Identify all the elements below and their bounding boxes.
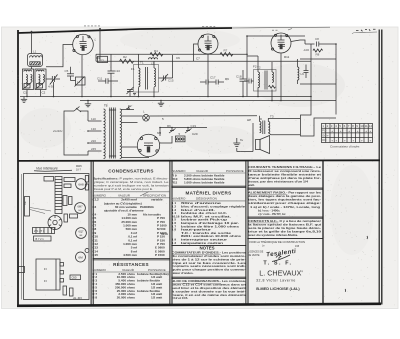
wire to dial lamp xyxy=(122,115,143,117)
tube socket V1c xyxy=(76,179,87,190)
svg-text:RÉSISTANCES: RÉSISTANCES xyxy=(113,260,149,267)
svg-text:tateur d'ondes.: tateur d'ondes. xyxy=(172,271,194,275)
wire right verticals xyxy=(310,44,312,97)
svg-text:C7: C7 xyxy=(196,57,200,61)
wire L1 to tuning coils xyxy=(31,67,33,70)
small part C xyxy=(64,184,71,188)
svg-text:FI: FI xyxy=(44,267,47,271)
connector TU box xyxy=(98,56,108,62)
svg-text:C1,2: C1,2 xyxy=(92,198,99,202)
svg-text:10: 10 xyxy=(360,124,364,128)
svg-text:T2: T2 xyxy=(128,104,132,108)
svg-text:FI: FI xyxy=(44,279,47,283)
handwritten tag top right xyxy=(352,29,377,33)
IF transformer T1 xyxy=(134,61,159,92)
wire V3 cathode down xyxy=(280,53,282,100)
band switch contact table xyxy=(322,124,373,143)
svg-text:C18: C18 xyxy=(236,75,242,79)
svg-text:T2: T2 xyxy=(257,66,261,70)
wire lamp to output stage xyxy=(149,115,257,117)
svg-text:L1: L1 xyxy=(33,50,37,54)
svg-text:R2: R2 xyxy=(123,55,127,59)
filter resistor R13 xyxy=(167,124,176,133)
svg-text:avec du système inférax-Mut: avec du système inférax-Mutra. xyxy=(248,233,298,237)
small part A xyxy=(44,177,54,182)
secondary taps to rectifier xyxy=(122,122,138,124)
extra tiny labels xyxy=(23,55,290,136)
svg-text:NUMERO: NUMERO xyxy=(172,169,186,173)
wire V2 grid left xyxy=(194,44,199,61)
svg-text:VALEUR: VALEUR xyxy=(196,169,209,173)
svg-text:C2: C2 xyxy=(42,91,46,95)
junction dots xyxy=(81,96,83,98)
svg-text:10-7: 10-7 xyxy=(76,169,81,172)
svg-text:6A8: 6A8 xyxy=(78,183,84,187)
screen wire W3 xyxy=(96,60,311,62)
svg-text:lampadaire cadran: lampadaire cadran xyxy=(181,241,223,245)
plate supply wire W2 xyxy=(96,53,247,55)
resistor R4 xyxy=(150,49,163,56)
mid small parts xyxy=(63,196,67,206)
dial drum xyxy=(48,216,62,230)
gang condenser block xyxy=(33,228,55,234)
svg-text:CBD: CBD xyxy=(72,277,77,280)
capacitor C17a xyxy=(200,80,216,85)
svg-text:C10: C10 xyxy=(115,69,121,73)
left electrolytic xyxy=(24,197,30,217)
tube V3 detector xyxy=(271,33,291,53)
small vertical caps xyxy=(63,286,67,295)
svg-text:R11: R11 xyxy=(172,180,178,184)
svg-text:C8: C8 xyxy=(315,37,319,41)
wire antenna lead down to L1 xyxy=(31,32,33,54)
tube V2 IF amp xyxy=(198,34,218,54)
wire speaker field xyxy=(240,151,253,153)
svg-text:LICENCES DE: LICENCES DE xyxy=(248,252,264,254)
svg-text:110: 110 xyxy=(91,117,96,121)
svg-text:DE VENTE: DE VENTE xyxy=(248,255,260,257)
wire plate bus V3 xyxy=(247,35,305,37)
svg-text:L. CHEVAUX': L. CHEVAUX' xyxy=(259,269,303,278)
svg-text:C12 et C15.: C12 et C15. xyxy=(172,296,189,300)
dial scale plate xyxy=(34,236,52,241)
wire C3 down to bus xyxy=(53,82,55,97)
junction dots bus xyxy=(26,35,337,128)
svg-text:C5: C5 xyxy=(65,69,69,73)
svg-text:d'essai pour P et M, et de ser: d'essai pour P et M, et de service pour … xyxy=(93,187,153,191)
svg-text:watt.: watt. xyxy=(247,183,255,187)
svg-text:DÉSIGNATION: DÉSIGNATION xyxy=(196,196,217,201)
svg-text:F1: F1 xyxy=(131,67,135,71)
svg-text:6M7: 6M7 xyxy=(77,205,83,209)
svg-text:C1: C1 xyxy=(23,91,27,95)
wire V1 plate to top xyxy=(99,29,101,62)
wires output to right xyxy=(268,119,300,122)
wires coils to bus xyxy=(26,90,28,97)
svg-text:T2: T2 xyxy=(104,104,108,108)
power transformer T3p xyxy=(104,104,122,159)
svg-text:+: + xyxy=(331,129,333,133)
capacitor C8 xyxy=(315,37,336,47)
switch I (secteur) xyxy=(74,107,88,122)
svg-text:+: + xyxy=(353,138,355,142)
svg-text:ajustable d'oscil. d'antenne: ajustable d'oscil. d'antenne xyxy=(104,209,144,213)
svg-text:2T1 2T 1: 2T1 2T 1 xyxy=(34,229,45,233)
svg-text:11: 11 xyxy=(365,124,368,128)
svg-text:1/2 watt: 1/2 watt xyxy=(151,296,162,300)
svg-text:CA: CA xyxy=(16,75,20,79)
svg-text:20.000 ohms: 20.000 ohms xyxy=(117,296,136,300)
ground G5 near speaker xyxy=(233,138,243,146)
svg-text:tissue, par des résistances d': tissue, par des résistances d'un 1/4 xyxy=(248,180,308,184)
svg-text:C19: C19 xyxy=(191,124,197,128)
coil L2 (antenna tuning) with trimmer xyxy=(23,69,34,90)
svg-text:C15: C15 xyxy=(92,253,98,257)
svg-text:B 7 2 1: B 7 2 1 xyxy=(36,237,45,241)
ground G2 xyxy=(85,101,91,107)
svg-text:50 m: 50 m xyxy=(161,232,168,236)
svg-text:-100: -100 xyxy=(303,48,309,52)
svg-text:32,8 Victor Laverne: 32,8 Victor Laverne xyxy=(256,278,296,282)
corner parts xyxy=(85,176,88,183)
svg-text:R8: R8 xyxy=(316,53,320,57)
wire V1 grid to antenna section xyxy=(46,45,73,67)
small part B xyxy=(64,178,75,182)
svg-text:c) / com - PETIT, kc: c) / com - PETIT, kc xyxy=(258,212,286,216)
svg-text:6Q7: 6Q7 xyxy=(79,230,84,234)
capacitor C5 xyxy=(65,67,75,81)
wire top right to C8 xyxy=(305,43,315,45)
title block xyxy=(248,241,305,291)
FRAME xyxy=(18,28,233,33)
svg-text:12: 12 xyxy=(369,124,373,128)
svg-text:R7: R7 xyxy=(224,49,228,53)
svg-text:PO: PO xyxy=(322,129,327,133)
trimmer C15 xyxy=(159,55,174,83)
svg-text:+: + xyxy=(336,138,338,142)
svg-text:+: + xyxy=(365,129,367,133)
small part CBD xyxy=(70,275,81,280)
power transformer block chassis xyxy=(36,259,64,290)
svg-text:+: + xyxy=(344,138,346,142)
dial lamp xyxy=(143,110,150,122)
svg-text:6M: 6M xyxy=(78,256,83,260)
svg-text:HP: HP xyxy=(247,118,251,122)
svg-text:AL 4Ft: AL 4Ft xyxy=(72,296,82,300)
tube socket V4c xyxy=(76,252,86,262)
output transformer T4 xyxy=(260,116,270,134)
wire rectifier output xyxy=(160,136,172,143)
svg-text:245: 245 xyxy=(91,147,96,151)
ground G1 xyxy=(21,97,27,103)
IF transformer T2if detector xyxy=(254,66,277,91)
svg-text:130: 130 xyxy=(91,127,96,131)
svg-text:+: + xyxy=(361,138,363,142)
svg-text:CONDENSATEURS: CONDENSATEURS xyxy=(108,168,153,173)
svg-text:C3: C3 xyxy=(92,205,96,209)
resistor R2 xyxy=(120,55,134,63)
signature xyxy=(266,248,297,259)
tube V1 top dashes label xyxy=(84,25,100,27)
svg-text:+: + xyxy=(370,138,372,142)
electrolytic capacitors C19 block xyxy=(176,132,186,142)
svg-text:C6: C6 xyxy=(176,56,180,60)
front knob shaft xyxy=(19,267,25,273)
svg-text:R4: R4 xyxy=(154,49,158,53)
ground G3 xyxy=(133,94,136,95)
svg-text:4.500 mm: 4.500 mm xyxy=(123,253,137,257)
capacitor C17b xyxy=(210,75,224,84)
filter cap C20 xyxy=(185,124,196,133)
capacitor C9 xyxy=(304,65,309,79)
svg-text:1 8: 1 8 xyxy=(172,228,177,232)
mains loop wire xyxy=(64,111,88,155)
chassis outline xyxy=(24,174,90,300)
svg-text:+: + xyxy=(340,129,342,133)
svg-text:PUISSANCE: PUISSANCE xyxy=(226,169,244,173)
capacitor C11 xyxy=(97,76,118,83)
wires T1 to buses xyxy=(138,54,140,68)
capacitor C13 xyxy=(244,79,254,84)
wire right loop to switch table xyxy=(301,97,337,137)
svg-text:Vue intérieure: Vue intérieure xyxy=(36,167,58,171)
tube V2 top label dashes xyxy=(202,26,215,28)
label Vue interieure xyxy=(34,165,82,172)
trimmer C12 xyxy=(127,87,134,97)
svg-text:C17: C17 xyxy=(210,75,216,79)
svg-text:Cdr: Cdr xyxy=(24,201,27,205)
AVC bus wire xyxy=(80,100,336,102)
svg-text:2x110v: 2x110v xyxy=(52,129,63,133)
svg-text:1 3: 1 3 xyxy=(172,241,177,245)
wires T2if xyxy=(257,56,259,72)
svg-text:+: + xyxy=(357,129,359,133)
svg-text:VOIR LA THÉORIQUE DE CONSTRUCT: VOIR LA THÉORIQUE DE CONSTRUCTION xyxy=(249,241,305,244)
resistor R7 xyxy=(220,49,233,57)
rectifier tube V4 xyxy=(137,131,161,157)
svg-text:C15: C15 xyxy=(168,79,174,83)
speaker HP xyxy=(256,136,270,154)
tube socket V3c xyxy=(76,228,87,239)
svg-text:+: + xyxy=(331,138,333,142)
RF choke L9 xyxy=(298,59,305,84)
coil L3 (osc tuning) with trimmer xyxy=(35,69,46,90)
svg-text:6M: 6M xyxy=(157,131,162,135)
svg-text:L4: L4 xyxy=(77,80,81,84)
wire V1 cathode down xyxy=(81,55,83,97)
svg-text:NUMERO: NUMERO xyxy=(172,197,186,201)
svg-text:MATÉRIEL DIVERS: MATÉRIEL DIVERS xyxy=(186,189,232,196)
ground G4 mid xyxy=(158,100,164,107)
ground main bus wire xyxy=(20,96,311,98)
svg-text:Commutateur d'ondes: Commutateur d'ondes xyxy=(330,145,360,149)
svg-text:R6: R6 xyxy=(167,124,171,128)
svg-text:T1: T1 xyxy=(140,61,144,65)
tube V3 top label xyxy=(272,29,292,31)
svg-text:T. S. F.: T. S. F. xyxy=(263,261,292,267)
svg-text:220: 220 xyxy=(91,139,96,143)
wire V3 plate right xyxy=(291,40,305,44)
svg-text:R 8: R 8 xyxy=(92,296,97,300)
IF can strip xyxy=(55,177,62,214)
svg-text:6v: 6v xyxy=(240,138,244,142)
osc coil L5 xyxy=(149,58,158,66)
primary taps 110/130/220/245 xyxy=(87,117,101,151)
svg-text:+: + xyxy=(348,129,350,133)
svg-text:+: + xyxy=(370,129,372,133)
svg-text:F2: F2 xyxy=(253,65,257,69)
svg-text:C20: C20 xyxy=(192,132,198,136)
capacitor C10 xyxy=(108,54,121,96)
junction dots mid xyxy=(207,96,209,98)
svg-text:C11: C11 xyxy=(97,76,103,80)
padder L4 box xyxy=(75,77,86,87)
svg-text:P 1500: P 1500 xyxy=(155,253,165,257)
svg-text:B-MED LICHOISE (L&L): B-MED LICHOISE (L&L) xyxy=(256,286,300,291)
diagonal dial cord xyxy=(30,208,51,212)
tube V1 mixer xyxy=(73,34,97,55)
secondary tap with arrow xyxy=(122,106,135,110)
svg-text:+: + xyxy=(327,134,329,138)
svg-text:1.000 ohms bobinée flexible: 1.000 ohms bobinée flexible xyxy=(184,180,225,184)
capacitor C18 xyxy=(236,70,247,97)
stray mark right column xyxy=(366,236,369,239)
antenna coil L1 xyxy=(28,50,43,67)
wire V2 cathode down xyxy=(207,54,209,96)
resistor R8 xyxy=(313,49,323,57)
svg-text:R1: R1 xyxy=(97,56,101,60)
svg-text:R9: R9 xyxy=(225,77,229,81)
svg-text:R11: R11 xyxy=(284,55,290,59)
tube socket V2c xyxy=(75,203,86,214)
variable capacitor C3 xyxy=(46,75,60,89)
svg-text:T3: T3 xyxy=(270,115,274,119)
svg-text:variable: variable xyxy=(151,198,163,202)
